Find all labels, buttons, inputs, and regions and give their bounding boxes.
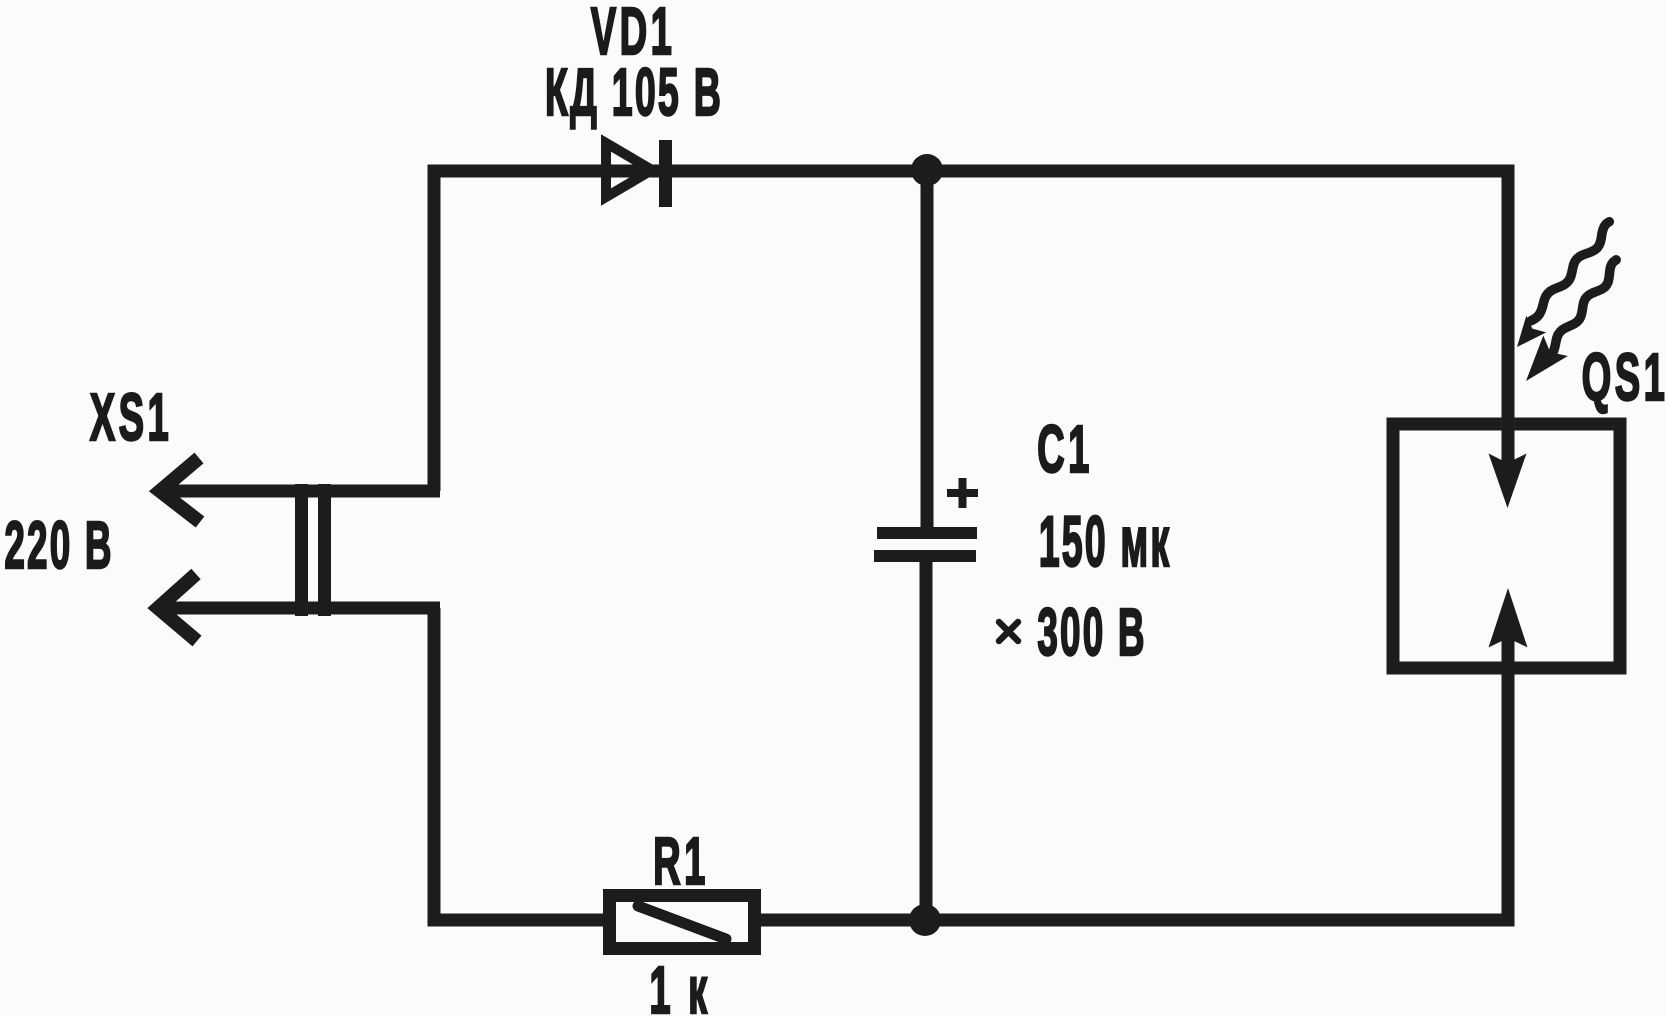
svg-text:R1: R1 [653, 824, 709, 899]
svg-text:1 к: 1 к [649, 953, 710, 1016]
svg-text:QS1: QS1 [1582, 340, 1665, 415]
svg-text:C1: C1 [1037, 412, 1093, 487]
svg-text:300 В: 300 В [1037, 596, 1146, 670]
svg-text:220 В: 220 В [4, 509, 113, 583]
svg-text:КД 105 В: КД 105 В [545, 55, 723, 130]
svg-text:150 мк: 150 мк [1039, 504, 1172, 583]
svg-text:XS1: XS1 [90, 380, 172, 455]
